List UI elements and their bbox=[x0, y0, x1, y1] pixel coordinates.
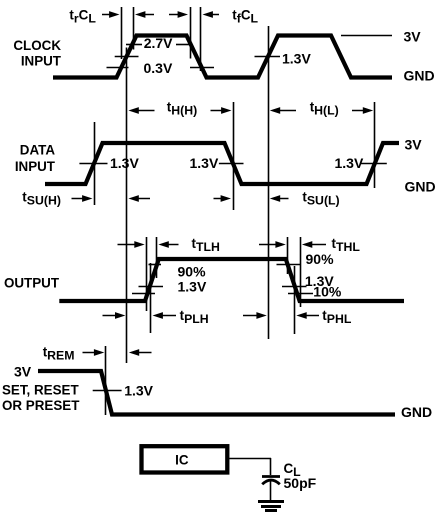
node output rise 90% tick bbox=[149, 264, 162, 266]
wire set-reset waveform bbox=[38, 371, 395, 415]
label tPHL with arrows bbox=[243, 308, 352, 326]
label 2.7V with tick lines bbox=[126, 35, 190, 51]
svg-text:tTHL: tTHL bbox=[332, 236, 361, 254]
label output rise 1.3V bbox=[178, 278, 207, 294]
node output fall 10% tick bbox=[288, 293, 313, 295]
svg-text:3V: 3V bbox=[405, 136, 423, 152]
label clock 3V bbox=[404, 29, 422, 45]
svg-text:tfCL: tfCL bbox=[232, 7, 258, 25]
svg-text:OR PRESET: OR PRESET bbox=[2, 398, 80, 413]
label output rise 90% bbox=[178, 263, 207, 279]
label tREM with arrow bbox=[43, 345, 105, 363]
wire tSU(H) left arrow at clock line bbox=[128, 195, 150, 202]
label 1.3V data fall with tick bbox=[190, 155, 244, 171]
svg-text:1.3V: 1.3V bbox=[335, 155, 364, 171]
svg-text:1.3V: 1.3V bbox=[110, 155, 139, 171]
svg-text:2.7V: 2.7V bbox=[144, 35, 173, 51]
label tTHL with arrows bbox=[259, 236, 360, 254]
svg-text:trCL: trCL bbox=[69, 7, 96, 25]
node data fall 1.3V vertical line bbox=[233, 102, 235, 210]
node set-reset 1.3V vertical line bbox=[105, 346, 107, 415]
wire clock pulse-width arrows bbox=[135, 11, 188, 18]
node output fall 10% vertical line bbox=[300, 237, 302, 307]
svg-text:10%: 10% bbox=[313, 284, 342, 300]
node data rise 1.3V vertical line bbox=[94, 122, 96, 205]
node output rise 90% vertical line bbox=[156, 237, 158, 278]
label output fall 90% bbox=[306, 251, 335, 267]
node output rise 10% vertical line bbox=[146, 237, 148, 311]
label tSU(H) with arrow bbox=[22, 190, 92, 208]
svg-text:1.3V: 1.3V bbox=[190, 155, 219, 171]
svg-text:tREM: tREM bbox=[43, 345, 75, 363]
label SET RESET OR PRESET bbox=[2, 382, 80, 413]
wire capacitor to ground bbox=[270, 482, 272, 501]
label tPLH with arrows bbox=[103, 308, 209, 326]
node clock rise-time 0.3V vertical line bbox=[121, 7, 123, 59]
label 1.3V data rise with tick bbox=[79, 155, 139, 171]
node clock fall-time 0.3V vertical line bbox=[200, 7, 202, 71]
wire output waveform bbox=[59, 259, 404, 301]
wire tSU(L) right arrow at data line bbox=[214, 195, 232, 202]
node output rise 1.3V vertical line bbox=[150, 263, 152, 333]
node output fall 90% tick bbox=[277, 264, 302, 266]
op-amp IC U1 (device under test box) bbox=[142, 446, 228, 472]
wire clock-input waveform bbox=[53, 36, 392, 78]
label output fall 10% bbox=[313, 284, 342, 300]
label 50pF bbox=[284, 475, 317, 491]
label CL bbox=[284, 461, 302, 479]
svg-text:CLOCK: CLOCK bbox=[13, 38, 61, 53]
node clock edge 2 reference line L2 bbox=[268, 26, 270, 339]
svg-text:tH(H): tH(H) bbox=[167, 100, 197, 118]
label 1.3V clock second rise with tick bbox=[255, 51, 312, 67]
label tSU(L) with arrow bbox=[270, 190, 340, 208]
label trCL with arrow bbox=[69, 7, 119, 25]
svg-text:1.3V: 1.3V bbox=[178, 278, 207, 294]
node clock fall-time 2.7V vertical line bbox=[190, 7, 192, 59]
svg-text:SET, RESET: SET, RESET bbox=[2, 382, 79, 397]
node output rise 1.3V tick bbox=[139, 286, 164, 288]
label data 3V bbox=[405, 136, 423, 152]
svg-text:tSU(L): tSU(L) bbox=[302, 190, 339, 208]
node clock edge 1 reference line L1 bbox=[126, 48, 128, 364]
svg-text:50pF: 50pF bbox=[284, 475, 317, 491]
svg-text:0.3V: 0.3V bbox=[144, 60, 173, 76]
wire tREM left arrow at clock line bbox=[129, 349, 152, 356]
node data second-rise 1.3V vertical line bbox=[374, 102, 376, 188]
ground symbol bbox=[258, 502, 284, 511]
svg-text:GND: GND bbox=[401, 404, 432, 420]
label tfCL with arrow bbox=[203, 7, 259, 25]
svg-text:DATA: DATA bbox=[20, 143, 56, 158]
node output fall 1.3V vertical line bbox=[294, 266, 296, 334]
label output fall 1.3V bbox=[305, 273, 334, 289]
node output fall 1.3V tick bbox=[282, 286, 307, 288]
label clock GND bbox=[404, 68, 435, 84]
svg-text:OUTPUT: OUTPUT bbox=[4, 276, 60, 291]
wire IC output to capacitor bbox=[229, 458, 271, 475]
label 1.3V data second rise with tick bbox=[335, 155, 387, 171]
svg-text:90%: 90% bbox=[306, 251, 335, 267]
node output fall 90% vertical line bbox=[287, 237, 289, 274]
label 0.3V with tick line bbox=[107, 60, 173, 76]
svg-text:tPHL: tPHL bbox=[322, 308, 352, 326]
label tH(L) with arrows bbox=[270, 100, 373, 118]
svg-text:tSU(H): tSU(H) bbox=[22, 190, 61, 208]
label set-reset 3V bbox=[14, 363, 32, 379]
svg-text:3V: 3V bbox=[404, 29, 422, 45]
node clock rise mid tick bbox=[115, 56, 139, 58]
svg-text:INPUT: INPUT bbox=[15, 159, 56, 174]
capacitor CL curved plate bbox=[262, 480, 280, 484]
svg-text:tTLH: tTLH bbox=[192, 236, 220, 254]
wire data-input waveform bbox=[45, 143, 399, 184]
label OUTPUT bbox=[4, 276, 60, 291]
label tTLH with arrows bbox=[118, 236, 220, 254]
svg-text:INPUT: INPUT bbox=[21, 53, 62, 68]
svg-text:IC: IC bbox=[175, 453, 189, 468]
node output rise 10% tick bbox=[132, 293, 155, 295]
label tH(H) with arrows bbox=[128, 100, 231, 118]
label data GND bbox=[405, 178, 436, 194]
label 1.3V set-reset with tick bbox=[93, 382, 154, 398]
label CLOCK INPUT bbox=[13, 38, 61, 69]
svg-text:tPLH: tPLH bbox=[180, 308, 209, 326]
node clock rise-time 2.7V vertical line bbox=[133, 7, 135, 50]
svg-text:90%: 90% bbox=[178, 263, 207, 279]
capacitor CL top plate bbox=[262, 475, 280, 478]
node clock fall 0.3V tick bbox=[190, 67, 214, 69]
svg-text:1.3V: 1.3V bbox=[124, 382, 153, 398]
label DATA INPUT bbox=[15, 143, 56, 174]
svg-text:GND: GND bbox=[404, 68, 435, 84]
wire clock 3V reference line bbox=[341, 35, 392, 37]
svg-text:tH(L): tH(L) bbox=[310, 100, 339, 118]
svg-text:3V: 3V bbox=[14, 363, 32, 379]
svg-text:1.3V: 1.3V bbox=[282, 51, 311, 67]
svg-text:GND: GND bbox=[405, 178, 436, 194]
label set-reset GND bbox=[401, 404, 432, 420]
